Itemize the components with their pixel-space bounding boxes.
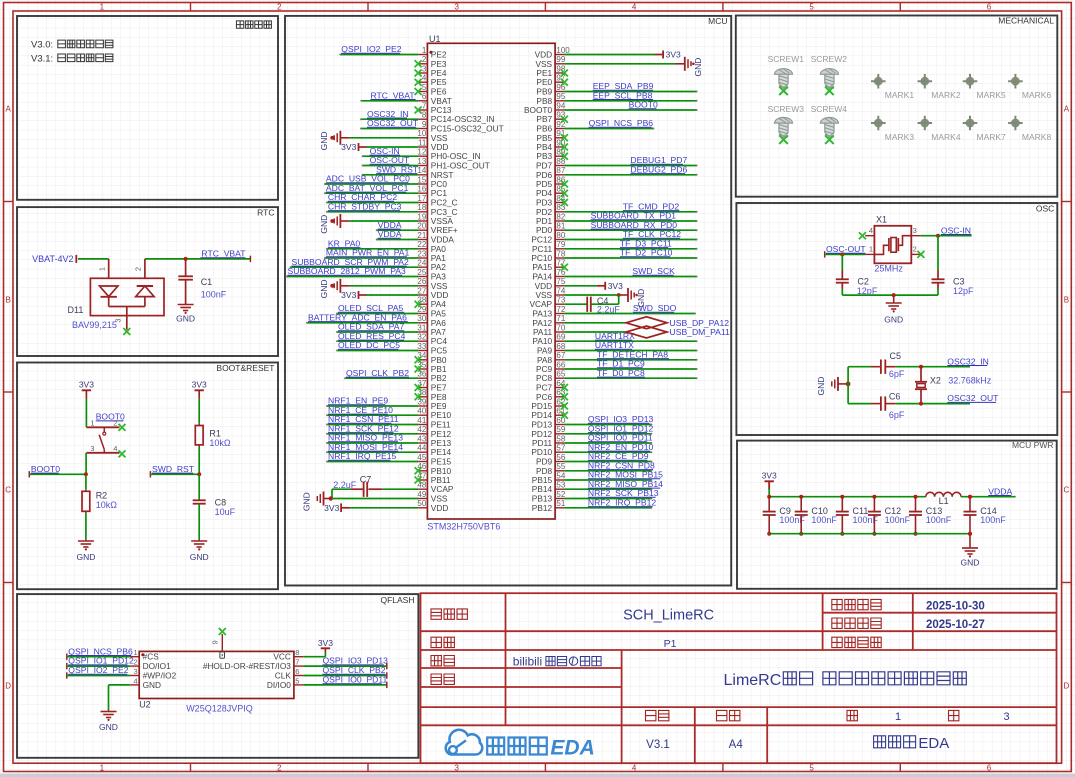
svg-text:STM32H750VBT6: STM32H750VBT6 xyxy=(427,521,500,531)
svg-text:PB6: PB6 xyxy=(536,124,552,134)
svg-text:L1: L1 xyxy=(939,496,949,506)
svg-text:33: 33 xyxy=(417,342,426,351)
svg-text:3: 3 xyxy=(913,226,917,235)
svg-text:4: 4 xyxy=(632,3,637,12)
svg-text:PD14: PD14 xyxy=(531,410,552,420)
svg-text:BAV99,215: BAV99,215 xyxy=(72,320,117,330)
svg-text:A: A xyxy=(6,105,12,114)
svg-text:5: 5 xyxy=(422,83,427,92)
svg-text:3V3: 3V3 xyxy=(608,281,623,291)
svg-text:12: 12 xyxy=(417,148,426,157)
svg-text:MARK1: MARK1 xyxy=(885,90,915,100)
svg-text:79: 79 xyxy=(556,240,565,249)
svg-text:53: 53 xyxy=(556,481,565,490)
svg-text:15: 15 xyxy=(417,175,426,184)
svg-text:VDD: VDD xyxy=(535,281,553,291)
svg-text:45: 45 xyxy=(417,453,426,462)
svg-text:51: 51 xyxy=(556,499,565,508)
svg-text:3V3: 3V3 xyxy=(666,50,681,60)
svg-text:A4: A4 xyxy=(729,739,744,751)
svg-text:PB7: PB7 xyxy=(536,114,552,124)
svg-text:50: 50 xyxy=(417,499,426,508)
svg-text:100nF: 100nF xyxy=(811,515,837,525)
svg-text:95: 95 xyxy=(556,92,565,101)
svg-text:1: 1 xyxy=(895,711,901,723)
svg-text:72: 72 xyxy=(556,305,565,314)
svg-text:10kΩ: 10kΩ xyxy=(209,438,231,448)
svg-text:MARK5: MARK5 xyxy=(977,90,1007,100)
svg-text:PB9: PB9 xyxy=(536,87,552,97)
svg-text:OSC32_IN: OSC32_IN xyxy=(947,356,989,366)
svg-text:EDA: EDA xyxy=(550,737,594,760)
svg-text:2.2uF: 2.2uF xyxy=(597,304,621,314)
svg-text:GND: GND xyxy=(636,289,646,308)
svg-text:GND: GND xyxy=(143,680,161,690)
svg-text:PA13: PA13 xyxy=(532,309,552,319)
svg-text:58: 58 xyxy=(556,434,565,443)
svg-text:82: 82 xyxy=(556,212,565,221)
svg-text:X1: X1 xyxy=(876,215,887,225)
svg-text:MCU PWR: MCU PWR xyxy=(1012,440,1054,450)
svg-text:OSC-IN: OSC-IN xyxy=(941,225,971,235)
svg-text:SCH_LimeRC: SCH_LimeRC xyxy=(623,608,714,624)
svg-text:12pF: 12pF xyxy=(857,286,878,296)
svg-text:PA14: PA14 xyxy=(532,272,552,282)
svg-text:59: 59 xyxy=(556,425,565,434)
svg-text:SWD_RST: SWD_RST xyxy=(152,464,195,474)
svg-text:PD12: PD12 xyxy=(531,429,552,439)
svg-text:100nF: 100nF xyxy=(926,515,952,525)
svg-text:LimeRC: LimeRC xyxy=(724,672,782,689)
svg-text:VSS: VSS xyxy=(535,290,552,300)
svg-text:C: C xyxy=(5,486,11,495)
svg-text:12pF: 12pF xyxy=(953,286,974,296)
svg-text:SWD_SCK: SWD_SCK xyxy=(632,266,675,276)
svg-text:10kΩ: 10kΩ xyxy=(96,500,118,510)
svg-text:X2: X2 xyxy=(930,376,941,386)
svg-text:23: 23 xyxy=(417,249,426,258)
svg-text:SCREW2: SCREW2 xyxy=(811,54,848,64)
svg-text:PD4: PD4 xyxy=(536,188,553,198)
svg-text:GND: GND xyxy=(884,315,903,325)
svg-text:GND: GND xyxy=(302,492,312,511)
svg-text:C5: C5 xyxy=(890,351,902,361)
svg-text:PB5: PB5 xyxy=(536,133,552,143)
svg-text:B: B xyxy=(6,296,11,305)
svg-text:2: 2 xyxy=(422,55,427,64)
svg-text:6: 6 xyxy=(987,763,992,772)
svg-text:32: 32 xyxy=(417,333,426,342)
svg-text:100nF: 100nF xyxy=(201,290,227,300)
svg-text:3V3: 3V3 xyxy=(192,380,207,390)
svg-text:17: 17 xyxy=(417,194,426,203)
svg-text:D: D xyxy=(5,682,11,691)
svg-text:7: 7 xyxy=(422,101,427,110)
svg-text:VDD: VDD xyxy=(431,503,449,513)
svg-text:4: 4 xyxy=(113,444,117,453)
svg-text:MARK7: MARK7 xyxy=(977,132,1007,142)
svg-text:87: 87 xyxy=(556,166,565,175)
svg-text:D11: D11 xyxy=(68,305,84,315)
svg-text:8: 8 xyxy=(422,111,427,120)
svg-text:B: B xyxy=(1064,296,1069,305)
svg-text:44: 44 xyxy=(417,444,426,453)
svg-text:GND: GND xyxy=(319,131,329,150)
svg-text:PD9: PD9 xyxy=(536,457,553,467)
svg-text:21: 21 xyxy=(417,231,426,240)
svg-text:6pF: 6pF xyxy=(889,369,905,379)
svg-text:3: 3 xyxy=(134,667,138,676)
svg-text:6: 6 xyxy=(295,667,299,676)
svg-text:C1: C1 xyxy=(201,277,213,287)
svg-text:6: 6 xyxy=(987,3,992,12)
svg-text:100nF: 100nF xyxy=(885,515,911,525)
svg-text:3V3: 3V3 xyxy=(318,638,333,648)
svg-text:PB4: PB4 xyxy=(536,142,552,152)
svg-text:VDDA: VDDA xyxy=(988,486,1012,496)
svg-text:PD15: PD15 xyxy=(531,401,552,411)
svg-text:7: 7 xyxy=(295,658,299,667)
svg-text:4: 4 xyxy=(632,763,637,772)
svg-text:GND: GND xyxy=(319,279,329,298)
svg-text:55: 55 xyxy=(556,462,565,471)
svg-text:30: 30 xyxy=(417,314,426,323)
svg-text:99: 99 xyxy=(556,55,565,64)
svg-text:V3.1:: V3.1: xyxy=(31,54,53,65)
svg-text:88: 88 xyxy=(556,157,565,166)
svg-text:TF_D0_PC8: TF_D0_PC8 xyxy=(597,368,645,378)
svg-text:SCREW4: SCREW4 xyxy=(811,104,848,114)
svg-text:QSPI_IO0_PD11: QSPI_IO0_PD11 xyxy=(323,675,388,685)
svg-text:3: 3 xyxy=(454,3,459,12)
svg-text:22: 22 xyxy=(417,240,426,249)
svg-text:GND: GND xyxy=(961,557,980,567)
svg-text:67: 67 xyxy=(556,351,565,360)
svg-text:2025-10-30: 2025-10-30 xyxy=(926,600,985,612)
svg-text:RTC_VBAT: RTC_VBAT xyxy=(371,90,416,100)
svg-text:C: C xyxy=(1064,486,1070,495)
svg-text:PD11: PD11 xyxy=(532,438,553,448)
svg-text:bilibili: bilibili xyxy=(513,655,542,669)
svg-text:C7: C7 xyxy=(360,474,372,484)
svg-text:2: 2 xyxy=(134,267,143,271)
svg-text:2025-10-27: 2025-10-27 xyxy=(926,619,985,631)
svg-text:56: 56 xyxy=(556,453,565,462)
svg-text:PB15: PB15 xyxy=(532,475,553,485)
svg-text:PC12: PC12 xyxy=(531,235,552,245)
svg-text:76: 76 xyxy=(556,268,565,277)
svg-text:QSPI_NCS_PB6: QSPI_NCS_PB6 xyxy=(589,118,654,128)
svg-text:V3.1: V3.1 xyxy=(646,739,670,751)
svg-text:24: 24 xyxy=(417,259,426,268)
svg-text:14: 14 xyxy=(417,166,426,175)
svg-text:18: 18 xyxy=(417,203,426,212)
svg-text:96: 96 xyxy=(556,83,565,92)
svg-text:78: 78 xyxy=(556,249,565,258)
svg-text:QSPI_IO2_PE2: QSPI_IO2_PE2 xyxy=(341,44,401,54)
svg-text:1: 1 xyxy=(100,3,105,12)
svg-text:PA11: PA11 xyxy=(533,327,552,337)
svg-text:P1: P1 xyxy=(664,638,677,650)
svg-text:66: 66 xyxy=(556,360,565,369)
svg-text:41: 41 xyxy=(417,416,426,425)
svg-text:20: 20 xyxy=(417,222,426,231)
svg-text:MARK8: MARK8 xyxy=(1022,132,1052,142)
svg-text:QFLASH: QFLASH xyxy=(380,595,414,605)
svg-text:A: A xyxy=(1064,105,1070,114)
svg-text:USB_DM_PA11: USB_DM_PA11 xyxy=(670,327,731,337)
svg-text:1: 1 xyxy=(869,245,873,254)
svg-text:PA10: PA10 xyxy=(532,336,552,346)
svg-text:PD0: PD0 xyxy=(536,225,553,235)
svg-text:3V3: 3V3 xyxy=(79,380,94,390)
svg-text:94: 94 xyxy=(556,101,565,110)
svg-text:OSC: OSC xyxy=(1036,203,1054,213)
svg-text:40: 40 xyxy=(417,407,426,416)
svg-text:VBAT-4V2: VBAT-4V2 xyxy=(32,254,73,264)
svg-text:70: 70 xyxy=(556,323,565,332)
svg-text:PA8: PA8 xyxy=(537,355,552,365)
svg-text:25MHz: 25MHz xyxy=(874,263,903,273)
svg-text:BOOT0: BOOT0 xyxy=(96,412,125,422)
svg-text:QSPI_IO2_PE2: QSPI_IO2_PE2 xyxy=(68,665,128,675)
svg-text:PB12: PB12 xyxy=(532,503,553,513)
svg-text:PD7: PD7 xyxy=(536,161,553,171)
svg-text:92: 92 xyxy=(556,120,565,129)
svg-text:10uF: 10uF xyxy=(215,507,236,517)
svg-text:57: 57 xyxy=(556,444,565,453)
svg-text:PC6: PC6 xyxy=(536,392,553,402)
svg-text:PD13: PD13 xyxy=(531,420,552,430)
svg-text:1: 1 xyxy=(100,763,105,772)
svg-text:PC7: PC7 xyxy=(536,383,553,393)
svg-text:PD5: PD5 xyxy=(536,179,553,189)
svg-text:74: 74 xyxy=(556,286,565,295)
svg-text:VCAP: VCAP xyxy=(530,299,553,309)
svg-text:GND: GND xyxy=(816,377,826,396)
svg-text:65: 65 xyxy=(556,370,565,379)
svg-text:SCREW3: SCREW3 xyxy=(768,104,805,114)
svg-text:4: 4 xyxy=(869,226,873,235)
svg-text:U2: U2 xyxy=(139,699,151,709)
svg-text:2.2uF: 2.2uF xyxy=(333,480,357,490)
svg-text:PB3: PB3 xyxy=(536,151,552,161)
svg-text:GND: GND xyxy=(176,314,195,324)
svg-text:10: 10 xyxy=(417,129,426,138)
svg-text:C3: C3 xyxy=(953,277,965,287)
svg-text:BOOT0: BOOT0 xyxy=(629,100,658,110)
svg-text:PA9: PA9 xyxy=(537,346,552,356)
svg-text:39: 39 xyxy=(417,397,426,406)
svg-text:PA15: PA15 xyxy=(532,262,552,272)
svg-text:VDDA: VDDA xyxy=(378,229,402,239)
svg-text:1: 1 xyxy=(97,267,106,271)
svg-text:PC9: PC9 xyxy=(536,364,553,374)
svg-text:C2: C2 xyxy=(857,277,869,287)
svg-text:GND: GND xyxy=(319,215,329,234)
svg-text:PD6: PD6 xyxy=(536,170,553,180)
svg-text:RTC_VBAT: RTC_VBAT xyxy=(201,249,246,259)
svg-text:3: 3 xyxy=(454,763,459,772)
svg-text:EDA: EDA xyxy=(918,735,949,752)
svg-text:8: 8 xyxy=(295,648,299,657)
svg-text:49: 49 xyxy=(417,490,426,499)
svg-text:19: 19 xyxy=(417,212,426,221)
svg-text:3: 3 xyxy=(422,64,427,73)
svg-text:80: 80 xyxy=(556,231,565,240)
svg-text:MECHANICAL: MECHANICAL xyxy=(998,16,1054,26)
svg-text:43: 43 xyxy=(417,434,426,443)
svg-text:QSPI_CLK_PB2: QSPI_CLK_PB2 xyxy=(346,368,409,378)
svg-text:V3.0:: V3.0: xyxy=(31,40,53,51)
svg-text:C6: C6 xyxy=(889,391,901,401)
svg-text:9: 9 xyxy=(422,120,427,129)
svg-text:3V3: 3V3 xyxy=(341,290,356,300)
svg-text:MCU: MCU xyxy=(708,16,727,26)
svg-text:52: 52 xyxy=(556,490,565,499)
svg-text:32.768kHz: 32.768kHz xyxy=(948,376,992,386)
svg-text:54: 54 xyxy=(556,471,565,480)
svg-text:1: 1 xyxy=(422,46,427,55)
svg-text:DI/IO0: DI/IO0 xyxy=(267,680,291,690)
svg-text:OSC-OUT: OSC-OUT xyxy=(826,244,866,254)
svg-text:73: 73 xyxy=(556,296,565,305)
svg-text:R2: R2 xyxy=(96,491,108,501)
svg-text:4: 4 xyxy=(422,74,427,83)
svg-text:3V3: 3V3 xyxy=(341,142,356,152)
svg-text:OSC32_OUT: OSC32_OUT xyxy=(947,393,999,403)
svg-text:16: 16 xyxy=(417,185,426,194)
svg-text:SCREW1: SCREW1 xyxy=(768,54,805,64)
svg-text:PD10: PD10 xyxy=(531,447,552,457)
svg-text:PE1: PE1 xyxy=(536,68,552,78)
svg-text:PD1: PD1 xyxy=(536,216,553,226)
svg-text:69: 69 xyxy=(556,333,565,342)
svg-text:26: 26 xyxy=(417,277,426,286)
svg-text:PB8: PB8 xyxy=(536,96,552,106)
svg-text:GND: GND xyxy=(190,552,209,562)
svg-text:PD3: PD3 xyxy=(536,198,553,208)
svg-text:2: 2 xyxy=(913,245,917,254)
svg-text:PC11: PC11 xyxy=(532,244,553,254)
svg-text:GND: GND xyxy=(76,552,95,562)
svg-text:DEBUG2_PD6: DEBUG2_PD6 xyxy=(630,164,687,174)
svg-text:75: 75 xyxy=(556,277,565,286)
svg-text:OSC32_OUT: OSC32_OUT xyxy=(367,118,419,128)
svg-text:27: 27 xyxy=(417,286,426,295)
svg-text:1: 1 xyxy=(90,419,94,428)
svg-text:PA12: PA12 xyxy=(532,318,552,328)
svg-text:BOOT0: BOOT0 xyxy=(524,105,553,115)
svg-text:W25Q128JVPIQ: W25Q128JVPIQ xyxy=(186,704,253,714)
svg-text:2: 2 xyxy=(277,3,282,12)
svg-text:1: 1 xyxy=(134,648,138,657)
svg-text:3V3: 3V3 xyxy=(324,503,339,513)
svg-text:NRF1_IRQ_PE15: NRF1_IRQ_PE15 xyxy=(328,451,397,461)
svg-text:2: 2 xyxy=(277,763,282,772)
svg-text:VSS: VSS xyxy=(535,59,552,69)
svg-text:NRF2_IRQ_PB12: NRF2_IRQ_PB12 xyxy=(588,497,657,507)
svg-text:3: 3 xyxy=(90,444,94,453)
svg-text:BOOT0: BOOT0 xyxy=(31,464,60,474)
svg-text:MARK4: MARK4 xyxy=(931,132,961,142)
svg-text:VDD: VDD xyxy=(535,50,553,60)
svg-text:2: 2 xyxy=(134,658,138,667)
svg-text:MARK2: MARK2 xyxy=(931,90,961,100)
svg-text:4: 4 xyxy=(134,676,138,685)
svg-text:RTC: RTC xyxy=(257,208,274,218)
svg-text:100nF: 100nF xyxy=(980,515,1006,525)
svg-text:GND: GND xyxy=(99,722,118,732)
svg-text:BOOT&RESET: BOOT&RESET xyxy=(216,363,274,373)
svg-text:60: 60 xyxy=(556,416,565,425)
svg-text:71: 71 xyxy=(556,314,565,323)
svg-text:5: 5 xyxy=(295,676,299,685)
svg-text:6pF: 6pF xyxy=(889,410,905,420)
svg-text:PC8: PC8 xyxy=(536,373,553,383)
svg-text:PB13: PB13 xyxy=(532,494,553,504)
svg-text:U1: U1 xyxy=(429,34,441,44)
svg-text:PB14: PB14 xyxy=(532,484,553,494)
svg-text:100: 100 xyxy=(556,46,570,55)
svg-text:MARK3: MARK3 xyxy=(885,132,915,142)
svg-text:25: 25 xyxy=(417,268,426,277)
svg-text:SUBBOARD_2812_PWM_PA3: SUBBOARD_2812_PWM_PA3 xyxy=(288,266,407,276)
svg-text:D: D xyxy=(1064,682,1070,691)
svg-text:3V3: 3V3 xyxy=(762,471,777,481)
svg-text:PC10: PC10 xyxy=(531,253,552,263)
svg-text:PE0: PE0 xyxy=(536,77,552,87)
svg-text:OLED_DC_PC5: OLED_DC_PC5 xyxy=(338,340,400,350)
svg-text:TF_D2_PC10: TF_D2_PC10 xyxy=(620,248,673,258)
svg-text:42: 42 xyxy=(417,425,426,434)
svg-text:11: 11 xyxy=(418,138,427,147)
svg-text:13: 13 xyxy=(417,157,426,166)
svg-text:5: 5 xyxy=(809,763,814,772)
svg-text:5: 5 xyxy=(809,3,814,12)
svg-text:6: 6 xyxy=(422,92,427,101)
svg-text:9: 9 xyxy=(210,640,219,644)
svg-text:MARK6: MARK6 xyxy=(1022,90,1052,100)
svg-text:PD2: PD2 xyxy=(536,207,553,217)
svg-text:3: 3 xyxy=(1003,711,1009,723)
svg-text:CHR_STDBY_PC3: CHR_STDBY_PC3 xyxy=(328,201,402,211)
svg-text:GND: GND xyxy=(693,58,703,77)
svg-text:68: 68 xyxy=(556,342,565,351)
svg-text:31: 31 xyxy=(417,323,426,332)
svg-text:PD8: PD8 xyxy=(536,466,553,476)
